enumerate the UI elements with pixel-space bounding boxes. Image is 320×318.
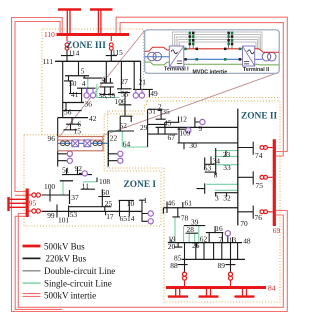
bus 109 [178, 127, 189, 142]
legend single-circuit swatch [23, 282, 41, 284]
bus 16 [206, 226, 224, 243]
svg-text:28: 28 [187, 225, 195, 234]
svg-text:34: 34 [213, 156, 221, 165]
transformer 95-100 [29, 194, 32, 196]
svg-text:33: 33 [223, 163, 231, 172]
svg-text:69: 69 [273, 226, 281, 235]
svg-text:50: 50 [69, 79, 77, 88]
wire 42 to bus 96 [57, 118, 59, 167]
svg-text:MVDC intertie: MVDC intertie [193, 70, 228, 76]
svg-text:108: 108 [99, 177, 110, 186]
transformer of node 115 [110, 35, 112, 42]
svg-text:ZONE III: ZONE III [66, 41, 106, 51]
node 115 tick [106, 51, 117, 62]
bus 4 [100, 78, 113, 83]
bus 51 lower bar [60, 180, 73, 182]
bus 3-32 cluster [197, 183, 239, 196]
tick 26 [196, 243, 198, 248]
svg-text:76: 76 [255, 213, 263, 222]
svg-text:51: 51 [62, 166, 70, 175]
intertie inner ring top [120, 23, 283, 156]
svg-text:21: 21 [139, 78, 147, 87]
svg-text:32: 32 [223, 193, 231, 202]
bus 95 [26, 189, 29, 218]
bus 28 [186, 232, 199, 234]
svg-text:36: 36 [85, 100, 93, 109]
svg-text:25: 25 [105, 199, 113, 208]
node 19 tick [170, 239, 172, 242]
svg-text:109: 109 [179, 129, 190, 138]
ZONE II boundary [108, 101, 280, 302]
svg-text:Single-circuit Line: Single-circuit Line [44, 278, 112, 288]
svg-text:45: 45 [164, 119, 172, 128]
generator of 95 [7, 197, 9, 211]
mvdc green pole line [184, 63, 243, 65]
MVDC source box [58, 137, 109, 151]
ticks 101,53 [57, 205, 69, 218]
transformer 88-84 [183, 272, 187, 276]
bus 63 [205, 157, 215, 169]
long bus 45-9 [156, 126, 238, 128]
svg-text:220kV Bus: 220kV Bus [46, 254, 87, 264]
wire 48 down [237, 243, 239, 260]
svg-text:35: 35 [162, 107, 170, 116]
load at bus 92 [82, 171, 87, 176]
ticks 46,61 [167, 202, 183, 214]
callout lines from MVDC box to inset [60, 31, 279, 137]
loads at bus 21 [136, 89, 142, 93]
svg-text:95: 95 [29, 199, 37, 208]
svg-text:111: 111 [43, 57, 54, 66]
bus 31 [148, 108, 163, 110]
svg-text:15: 15 [74, 126, 82, 135]
svg-text:115: 115 [112, 48, 123, 57]
bus 15 [64, 124, 78, 130]
svg-text:31: 31 [149, 107, 157, 116]
svg-text:42: 42 [89, 114, 97, 123]
RED 500kV buses and generators [9, 10, 275, 297]
svg-text:37: 37 [71, 193, 79, 202]
loads at bus 1 [148, 211, 153, 216]
bus 100 wire [42, 189, 70, 202]
svg-text:61: 61 [185, 199, 193, 208]
bus 46-61 [163, 208, 237, 214]
load at bus 13 [225, 231, 230, 236]
svg-text:100: 100 [44, 182, 55, 191]
generator G2 of 84 [207, 288, 211, 296]
converter Terminal II [243, 46, 255, 66]
load bar near 41 [77, 87, 96, 89]
zone boundaries (dotted) [24, 29, 280, 302]
svg-text:48: 48 [243, 236, 251, 245]
svg-text:3: 3 [215, 193, 219, 202]
svg-text:62: 62 [200, 234, 208, 243]
long bus 99-101-53 [42, 210, 143, 212]
svg-text:75: 75 [256, 181, 264, 190]
dc capacitor columns left [190, 32, 193, 49]
svg-text:88: 88 [170, 261, 178, 270]
svg-text:Terminal II: Terminal II [243, 67, 270, 73]
converter square right [84, 140, 91, 147]
svg-text:84: 84 [268, 284, 276, 293]
bus 29 [148, 109, 165, 147]
bus 51-92 [62, 167, 92, 175]
transformer of node 114 [66, 35, 68, 42]
transformer T-I [148, 52, 157, 61]
loads at bus 22 [118, 151, 123, 156]
intertie outer ring [116, 17, 287, 151]
dc capacitor columns right [229, 32, 232, 49]
svg-text:8: 8 [214, 171, 218, 180]
500kV intertie double red lines [12, 17, 288, 311]
transformer 89-84 [229, 272, 233, 276]
svg-text:4: 4 [82, 79, 86, 88]
svg-text:29: 29 [140, 123, 148, 132]
bus 69 [273, 139, 276, 226]
svg-text:10: 10 [127, 199, 135, 208]
transformer 75-69 [260, 175, 264, 179]
svg-text:60: 60 [102, 188, 110, 197]
svg-text:9: 9 [199, 124, 203, 133]
svg-text:70: 70 [240, 219, 248, 228]
bar 40 [83, 76, 102, 78]
svg-text:30: 30 [189, 141, 197, 150]
bus 41 [69, 81, 82, 103]
svg-text:Terminal I: Terminal I [164, 67, 189, 73]
svg-text:92: 92 [75, 164, 83, 173]
callout B [103, 73, 278, 136]
svg-text:74: 74 [255, 151, 263, 160]
bus 67 bar [148, 127, 178, 134]
bus 36 [63, 102, 84, 104]
generator G1 of 110 [67, 10, 70, 35]
bus 5 [65, 75, 89, 77]
bus 55 [118, 93, 130, 105]
wires linking buses [196, 243, 222, 260]
svg-text:78: 78 [181, 214, 189, 223]
transformer T-II [262, 52, 271, 61]
svg-text:13: 13 [229, 235, 237, 244]
svg-text:101: 101 [58, 215, 69, 224]
ticks 62,7,13 [228, 236, 233, 243]
svg-text:41: 41 [71, 90, 79, 99]
bus 106 [119, 105, 132, 116]
ZONE II cluster: node 23 tick [225, 151, 227, 157]
terminal I ac phase lines from frame [145, 47, 170, 51]
svg-text:46: 46 [168, 198, 176, 207]
bus 12 [165, 116, 180, 127]
bus 84 [166, 286, 266, 289]
node 35 [156, 110, 166, 119]
svg-text:1: 1 [144, 196, 148, 205]
node 2 tick [158, 109, 163, 111]
svg-text:56: 56 [64, 107, 72, 116]
svg-text:7: 7 [219, 235, 223, 244]
upper dc line [58, 139, 103, 141]
converter transformer circles left [61, 141, 66, 146]
legend 500kV bus swatch [23, 245, 41, 248]
wire 22-52 [108, 130, 134, 132]
bus 20 [174, 243, 182, 248]
inset frame [145, 30, 280, 74]
bus 96 stub and load stems [58, 154, 118, 161]
bus 110 [57, 33, 130, 36]
intertie stub at bus 95 [15, 194, 27, 196]
svg-text:20: 20 [168, 242, 176, 251]
node 114 tick [61, 51, 73, 62]
buses 58,59 [100, 87, 114, 95]
loads at bus 96 [67, 151, 72, 156]
bus 52 [120, 116, 132, 131]
bus 37 [69, 190, 71, 204]
ZONE III boundary [42, 29, 144, 135]
legend double-circuit swatch [23, 270, 41, 272]
gray cable bundle [173, 32, 263, 51]
bus 11 [81, 188, 95, 190]
svg-text:89: 89 [218, 261, 226, 270]
legend intertie swatch [23, 294, 41, 297]
load at bus 109 [186, 128, 191, 133]
svg-text:ZONE II: ZONE II [241, 112, 278, 122]
dc line through box [58, 142, 109, 144]
bus 50 [64, 76, 73, 81]
svg-text:110: 110 [44, 30, 55, 39]
mvdc red pole line [184, 48, 243, 50]
svg-text:12: 12 [180, 115, 188, 124]
svg-text:26: 26 [192, 241, 200, 250]
svg-text:500kV intertie: 500kV intertie [44, 291, 96, 301]
bus 27 [117, 88, 132, 90]
svg-text:64: 64 [123, 140, 131, 149]
svg-text:53: 53 [70, 210, 78, 219]
svg-text:63: 63 [204, 163, 212, 172]
svg-text:ZONE I: ZONE I [124, 180, 157, 190]
intertie middle line lower left [15, 216, 62, 309]
transformer 74-69 [260, 146, 264, 150]
callout A [60, 31, 145, 137]
svg-text:14: 14 [127, 214, 135, 223]
bus 39 [184, 225, 205, 227]
converter square left [72, 140, 79, 147]
svg-text:5: 5 [81, 67, 85, 76]
node 76 [238, 206, 253, 219]
svg-text:Double-circuit Line: Double-circuit Line [44, 266, 115, 276]
node 88 [178, 243, 188, 272]
svg-text:52: 52 [120, 121, 128, 130]
loads at bus 41 [87, 88, 93, 93]
bus 30 [178, 143, 238, 149]
purple load symbols [67, 88, 230, 236]
load at node 9 [200, 119, 205, 124]
bus 25 bar [69, 207, 112, 216]
svg-text:106: 106 [115, 97, 126, 106]
converter transformer circles right [93, 141, 98, 146]
bus 88-89 long bus [182, 258, 245, 260]
legend 220kV bus swatch [23, 257, 41, 259]
terminal II ac phase lines [255, 49, 279, 52]
converter Terminal I [169, 46, 184, 67]
bus 21 [133, 89, 153, 97]
svg-text:17: 17 [106, 212, 114, 221]
ZONE I boundary [24, 114, 161, 226]
svg-text:16: 16 [215, 224, 223, 233]
wires from bus 111 [63, 61, 141, 117]
BLACK 220kV network [42, 51, 254, 272]
svg-text:2: 2 [158, 104, 162, 111]
bus 56 [63, 103, 82, 111]
svg-text:23: 23 [223, 150, 231, 159]
node 9 tick [195, 117, 200, 127]
bus 111 [55, 60, 141, 62]
node 74 [238, 142, 253, 155]
svg-text:4: 4 [102, 75, 106, 84]
svg-text:500kV Bus: 500kV Bus [44, 241, 85, 251]
svg-text:99: 99 [47, 211, 55, 220]
long vertical ZONE II trunk [237, 109, 239, 226]
bus 42 [58, 117, 88, 119]
transformer 76-69 [260, 210, 264, 214]
bus 6 [66, 118, 80, 125]
svg-text:96: 96 [48, 134, 56, 143]
bus 22 [107, 131, 109, 167]
generator G1 of 84 [176, 288, 180, 296]
svg-text:67: 67 [168, 133, 176, 142]
bus 60 [98, 189, 110, 207]
bus 8 bar [205, 171, 216, 173]
generator G2 of 110 [98, 10, 101, 35]
pole line switches [184, 48, 187, 51]
GREEN single-circuit lines [63, 78, 238, 243]
bus 108 tick [96, 178, 98, 183]
node 89 [225, 243, 235, 272]
wire 8 vertical [215, 148, 217, 175]
svg-text:11: 11 [82, 182, 89, 191]
svg-text:27: 27 [121, 77, 129, 86]
transformer 95-99 [29, 210, 32, 212]
node 75 [238, 171, 253, 184]
intertie inner ring bottom [18, 214, 283, 308]
bus 78 [172, 208, 180, 217]
generator G3 of 84 [243, 288, 247, 296]
bus 10 [119, 200, 135, 216]
bus 1 [139, 200, 148, 222]
svg-text:22: 22 [110, 134, 118, 143]
main lower bus [168, 242, 242, 244]
mvdc blue pole line [184, 58, 243, 60]
svg-text:58,59: 58,59 [99, 91, 116, 100]
svg-text:49: 49 [150, 89, 158, 98]
tick 34 [210, 156, 212, 164]
